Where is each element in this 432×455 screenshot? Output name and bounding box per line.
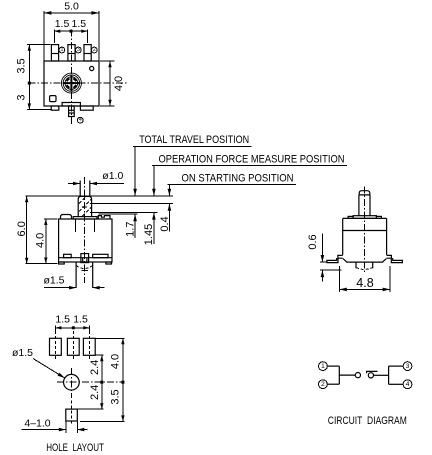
pin number 3 [76,47,82,53]
dimension diameter 1.0 [68,170,124,185]
svg-text:2: 2 [93,47,96,53]
center boss (front view) [356,262,373,268]
switch body (front view) [343,218,387,255]
plunger shaft (front view) [359,195,370,216]
dimension 5.0 [44,1,99,61]
svg-text:2.4: 2.4 [89,360,101,375]
svg-text:3.5: 3.5 [16,58,28,73]
rotary knob circles (top view) [61,73,81,93]
terminal 1 (top view) [51,45,58,61]
wire to left contact [339,374,355,376]
square hole centerline [70,401,72,426]
right contact [368,373,373,378]
dimension 1.5 1.5 [54,18,87,43]
svg-text:3: 3 [406,363,410,370]
dimension 1.5 1.5 (hole layout) [55,313,89,333]
wire from terminal 2 [327,383,339,385]
svg-text:3.5: 3.5 [110,389,122,404]
svg-text:OPERATION FORCE MEASURE POSITI: OPERATION FORCE MEASURE POSITION [159,154,345,166]
dimension 4.0 (side view) [35,219,58,264]
svg-text:0.4: 0.4 [159,216,171,231]
total travel position line [98,213,137,215]
label diameter 1.5 with leader [12,347,65,378]
plunger pin (side view) [80,181,90,197]
svg-text:1.45: 1.45 [143,224,155,245]
square hole [66,409,78,421]
bottom post center tick [82,270,88,272]
dimension 0.4 [159,204,171,232]
wire to terminal 4 [389,383,404,385]
left contact [355,373,360,378]
dimension 6.0 [16,196,58,264]
plunger cap (side view) [78,196,91,216]
plunger guide walls (side view) [75,219,94,232]
svg-text:6.0: 6.0 [16,221,28,236]
switch body (side view) [59,219,112,262]
hole 1 centerline [54,331,56,361]
label ON STARTING POSITION [168,172,296,195]
plunger dome (front view) [359,191,370,195]
left junction wire [338,366,340,384]
svg-text:2.4: 2.4 [89,385,101,400]
svg-text:1.5: 1.5 [71,18,86,30]
pin number 1 [59,47,65,53]
pin number 2 [91,47,97,53]
dimension 4.0 (hole layout) [80,338,125,421]
body bottom shell (front view) [343,259,387,263]
bottom plate (top view) [62,103,80,107]
vertical centerline (front view) [363,187,365,274]
svg-text:4.0: 4.0 [35,233,47,248]
left mounting leg (front view) [327,255,343,262]
free position line [26,195,174,197]
terminal hole 3 [67,338,79,355]
svg-text:CIRCUIT DIAGRAM: CIRCUIT DIAGRAM [328,415,407,427]
right mounting leg (front view) [387,255,403,262]
terminal 2 (circuit) [319,380,328,389]
dimension 4.0 (top view) [100,61,125,106]
terminal 3 (top view) [68,45,75,61]
terminal 2 (top view) [84,45,91,61]
dimension 2.4 upper [78,355,104,409]
wire from right contact [374,374,389,376]
wire to terminal 3 [389,365,404,367]
vertical centerline (side view) [84,177,86,283]
dimension 1.7 [125,214,137,238]
svg-text:ON STARTING POSITION: ON STARTING POSITION [182,172,294,184]
svg-text:1.5: 1.5 [73,313,88,325]
corner hole circle (top view) [90,66,94,70]
svg-text:4: 4 [406,381,410,388]
svg-text:4.8: 4.8 [356,276,373,290]
svg-text:2: 2 [321,381,325,388]
hole 3 centerline [72,331,74,361]
dimension 3 [16,83,52,109]
base rail (side view) [59,257,112,259]
terminal hole 2 [83,338,95,355]
label TOTAL TRAVEL POSITION [133,134,252,196]
vertical centerline (top view) [70,30,72,126]
center hole diameter 1.5 [64,374,80,390]
svg-text:1: 1 [321,363,325,370]
svg-text:TOTAL TRAVEL POSITION: TOTAL TRAVEL POSITION [139,134,249,146]
dimension diameter 1.5 (side view) [43,275,104,290]
svg-text:ø1.0: ø1.0 [102,170,123,182]
svg-text:ø1.5: ø1.5 [12,347,33,359]
corner square (top view) [50,96,56,102]
terminal 4 (circuit) [403,380,412,389]
svg-text:1.7: 1.7 [125,222,137,237]
bottom post hidden arc (side view) [76,266,93,269]
left foot (top view) [51,106,59,110]
svg-text:4.0: 4.0 [113,76,125,91]
right terminal bump (side view) [98,216,110,219]
svg-text:4–1.0: 4–1.0 [24,417,50,429]
operation force position line [90,212,158,214]
right junction wire [388,366,390,384]
dimension 1.45 [143,213,156,246]
right base end cap (side view) [106,262,112,264]
svg-text:1: 1 [60,47,63,53]
horizontal centerline (top view) [28,82,126,84]
right rail bump (side view) [93,254,108,257]
bottom pin (top view) [69,106,75,117]
svg-text:ø1.5: ø1.5 [43,275,64,287]
wire from terminal 1 [327,365,339,367]
top view body [44,61,99,106]
left rail bump (side view) [64,254,72,257]
terminal 1 (circuit) [319,362,328,371]
svg-text:3: 3 [16,94,28,100]
svg-text:4.0: 4.0 [110,354,122,369]
center hole horizontal centerline [57,381,124,383]
left terminal bump (side view) [61,215,72,220]
hole 2 centerline [88,331,90,361]
dimension 4-1.0 [21,417,87,433]
knob cross recess [64,75,80,91]
dimension 0.6 [307,234,342,282]
bottom post (side view) [76,262,93,288]
center hole vertical centerline [70,368,72,398]
moving contact lever [367,371,378,373]
left base end cap (side view) [59,262,65,264]
dimension 4.8 [339,266,390,292]
on starting position line [90,203,173,205]
label OPERATION FORCE MEASURE POSITION [152,154,347,196]
svg-text:4: 4 [79,117,82,123]
plunger collar plate (side view) [73,217,97,219]
right foot (top view) [80,106,93,110]
plunger collar (front view) [348,216,381,219]
svg-text:0.6: 0.6 [307,234,319,249]
svg-text:5.0: 5.0 [64,1,79,13]
dimension 3.5 [16,45,51,85]
center clip (side view) [81,254,89,263]
svg-text:HOLE LAYOUT: HOLE LAYOUT [46,442,104,454]
center boss hidden bottom (front view) [356,268,373,270]
svg-text:1.5: 1.5 [55,313,70,325]
terminal 3 (circuit) [403,362,412,371]
terminal hole 1 [50,338,62,355]
svg-text:3: 3 [77,47,80,53]
svg-text:1.5: 1.5 [55,18,70,30]
pin number 4 [77,117,83,123]
